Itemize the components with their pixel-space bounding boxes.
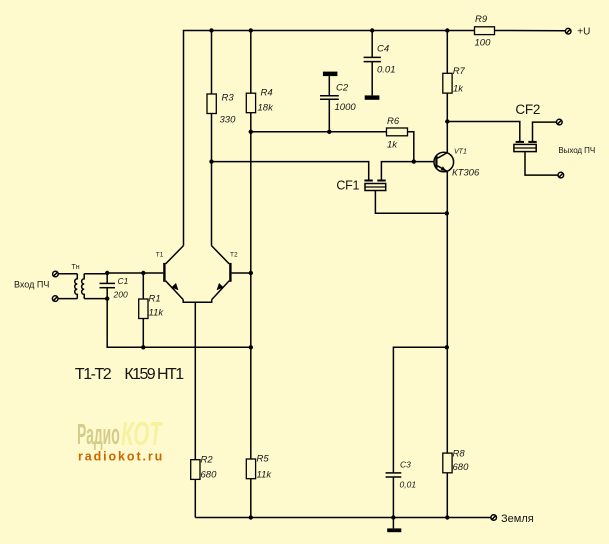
svg-text:R1: R1	[149, 294, 161, 305]
node R1 top	[141, 271, 145, 275]
wire CF1 bottom to emitter line	[375, 191, 446, 214]
wire common emitter	[183, 300, 212, 303]
svg-text:C1: C1	[118, 276, 129, 286]
wire C3 branch	[393, 347, 446, 472]
ground bar above C2	[323, 72, 338, 77]
svg-text:Выход ПЧ: Выход ПЧ	[558, 146, 595, 155]
svg-text:Т1: Т1	[156, 252, 164, 259]
svg-text:680: 680	[453, 462, 470, 473]
resistor R3	[207, 31, 236, 246]
node top rail C4	[370, 28, 374, 32]
resistor R9	[475, 14, 495, 49]
wire collector junction to CF2	[447, 122, 520, 142]
terminal output lower	[558, 172, 564, 178]
wire CF1 right to VT1 base	[381, 162, 434, 180]
node R1 bottom	[141, 345, 145, 349]
svg-text:0,01: 0,01	[400, 480, 417, 490]
svg-text:R5: R5	[257, 454, 270, 465]
node T2 base	[249, 271, 253, 275]
resistor R7	[443, 31, 466, 153]
ground symbol	[387, 518, 401, 533]
node rail C3	[391, 515, 395, 519]
svg-text:1000: 1000	[335, 102, 357, 113]
svg-text:CF2: CF2	[515, 102, 540, 117]
svg-text:680: 680	[201, 470, 218, 481]
svg-text:VT1: VT1	[454, 148, 467, 155]
capacitor C2	[320, 76, 356, 132]
wire VT1 emitter down	[446, 172, 448, 453]
node R6 base wire	[412, 159, 416, 163]
node R3 base wire	[209, 159, 213, 163]
transistor T1	[156, 246, 184, 300]
svg-text:C4: C4	[377, 44, 389, 55]
node CF1 emitter wire	[445, 211, 449, 215]
transistor VT1	[434, 148, 480, 178]
node rail R8	[445, 515, 449, 519]
wire bottom rail	[195, 517, 491, 519]
transformer Tr	[58, 264, 107, 299]
wire R3 junction to CF1 left	[212, 162, 369, 180]
node C1 bottom	[105, 296, 109, 300]
resistor R4	[246, 31, 274, 274]
svg-text:R3: R3	[222, 93, 235, 104]
svg-text:К159 НТ1: К159 НТ1	[124, 366, 184, 383]
svg-text:C2: C2	[336, 83, 349, 94]
node collector CF2	[445, 119, 449, 123]
capacitor C4	[364, 31, 396, 96]
svg-text:R8: R8	[453, 449, 466, 460]
watermark Radio KOT	[77, 415, 163, 452]
ground bar below C4	[365, 95, 380, 99]
svg-text:Тн: Тн	[72, 264, 80, 271]
svg-text:R6: R6	[387, 116, 400, 127]
node C2 R6 wire	[327, 130, 331, 134]
svg-text:R9: R9	[475, 14, 488, 25]
wire input top to T1 base	[107, 272, 163, 274]
svg-text:18k: 18k	[258, 103, 275, 114]
svg-text:CF1: CF1	[336, 179, 359, 193]
wire R4 to R6	[251, 131, 387, 133]
svg-text:11k: 11k	[257, 470, 273, 481]
resistor R6	[387, 116, 408, 151]
terminal +U	[565, 27, 590, 38]
resistor R2	[191, 455, 217, 518]
svg-text:11k: 11k	[149, 308, 165, 319]
node top rail R4	[249, 28, 253, 32]
node C1 top	[105, 271, 109, 275]
wire emitter down to R2	[194, 302, 196, 460]
svg-text:C3: C3	[400, 460, 411, 470]
wire T2 base line down to R5	[250, 273, 252, 459]
ceramic filter CF1	[336, 179, 385, 193]
svg-text:R2: R2	[201, 455, 214, 466]
label T1-T2 K159 NT1	[75, 366, 184, 383]
resistor R8	[443, 449, 469, 518]
terminal input lower	[52, 296, 58, 302]
terminal input upper	[53, 271, 59, 277]
wire C1 bottom down and bias rail	[107, 299, 251, 348]
wire CF2 bottom to lower output terminal	[525, 152, 558, 176]
ceramic filter CF2	[514, 102, 541, 152]
svg-text:R4: R4	[261, 88, 273, 99]
node C3 emitter wire	[445, 345, 449, 349]
svg-text:0.01: 0.01	[377, 65, 396, 76]
svg-text:200: 200	[113, 290, 128, 300]
svg-text:R7: R7	[453, 66, 466, 77]
svg-text:Т1-Т2: Т1-Т2	[75, 366, 112, 383]
svg-text:Земля: Земля	[501, 513, 534, 525]
node bias R5	[249, 345, 253, 349]
terminal Zemlya	[491, 513, 534, 525]
svg-text:1k: 1k	[387, 140, 398, 151]
svg-text:330: 330	[220, 115, 237, 126]
wire CF2 right to output terminal	[533, 122, 557, 141]
svg-text:КОТ: КОТ	[121, 415, 163, 452]
svg-text:Радио: Радио	[77, 417, 120, 450]
svg-text:1k: 1k	[453, 84, 464, 95]
svg-text:Вход ПЧ: Вход ПЧ	[14, 280, 49, 290]
svg-text:Т2: Т2	[230, 252, 238, 259]
wire top rail right of R9	[495, 30, 566, 32]
capacitor C3	[386, 460, 417, 518]
transistor T2	[212, 246, 251, 300]
wire R6 to base wire	[408, 132, 414, 162]
node R4 R6	[249, 130, 253, 134]
svg-text:+U: +U	[577, 27, 590, 38]
wire top rail left	[184, 31, 475, 246]
svg-text:radiokot.ru: radiokot.ru	[78, 450, 164, 464]
node top rail R7	[445, 28, 449, 32]
resistor R5	[246, 454, 272, 518]
svg-text:КТ306: КТ306	[452, 168, 480, 179]
capacitor C1	[100, 273, 129, 300]
resistor R1	[139, 273, 165, 347]
terminal output upper	[557, 119, 563, 125]
svg-text:100: 100	[475, 38, 492, 49]
node top rail R3	[209, 28, 213, 32]
node rail R5	[249, 515, 253, 519]
